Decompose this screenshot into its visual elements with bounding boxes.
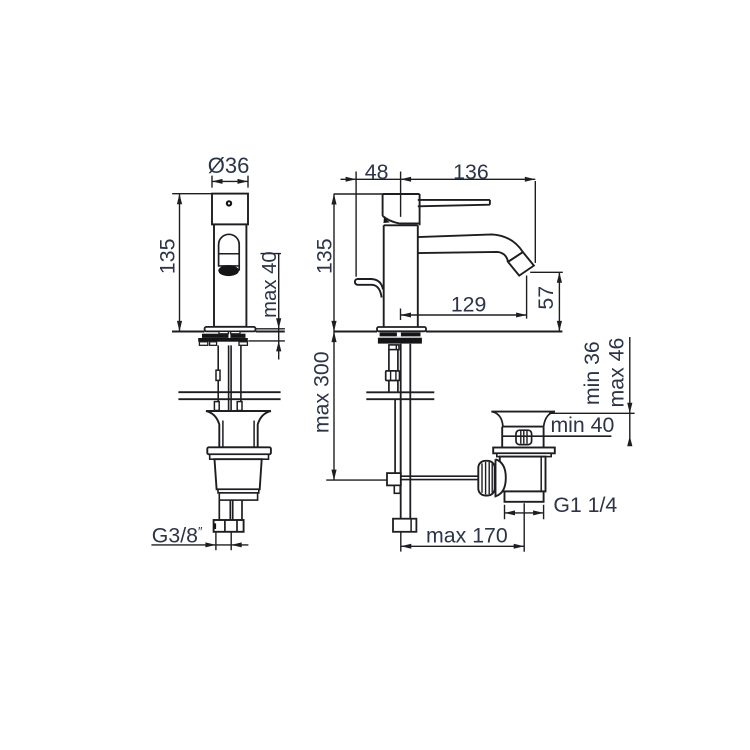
svg-text:min 36: min 36 — [580, 341, 604, 405]
svg-text:129: 129 — [451, 292, 487, 316]
svg-text:Ø36: Ø36 — [208, 153, 250, 178]
svg-text:max 300: max 300 — [310, 351, 334, 433]
svg-text:136: 136 — [453, 160, 489, 184]
svg-text:max 40: max 40 — [259, 251, 281, 318]
svg-text:135: 135 — [156, 239, 180, 275]
svg-text:max 46: max 46 — [605, 338, 629, 408]
svg-text:135: 135 — [313, 238, 337, 274]
svg-text:G1 1/4: G1 1/4 — [553, 493, 617, 517]
svg-text:max 170: max 170 — [426, 524, 508, 548]
svg-text:48: 48 — [365, 160, 389, 184]
svg-text:57: 57 — [534, 286, 558, 310]
svg-text:min 40: min 40 — [550, 413, 614, 437]
svg-text:G3/8″: G3/8″ — [152, 523, 203, 547]
